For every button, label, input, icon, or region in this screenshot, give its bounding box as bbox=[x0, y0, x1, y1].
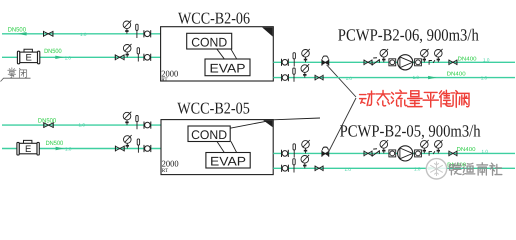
valve V6 on pipe-5 bbox=[44, 122, 53, 128]
svg-text:1.0: 1.0 bbox=[80, 32, 87, 37]
thermowell T3 on pipe-3 bbox=[293, 53, 295, 67]
svg-text:DN500: DN500 bbox=[38, 118, 57, 125]
watermark logo circle bbox=[426, 159, 446, 179]
flow arrow pipe-1 (left) bbox=[17, 32, 26, 35]
union J10 on pipe-7 bbox=[389, 150, 396, 157]
watermark text nuan-tong-nan-she bbox=[450, 163, 462, 175]
svg-text:1.0: 1.0 bbox=[482, 149, 489, 154]
leader underline for chang-bi bbox=[1, 78, 31, 81]
svg-text:DN500: DN500 bbox=[46, 140, 64, 147]
check valve CK2 on pipe-7 bbox=[372, 149, 379, 157]
dynamic balancing valve BV2 on pipe-7 bbox=[322, 147, 329, 157]
label box EVAP unit-2 bbox=[206, 153, 250, 169]
wire pipe-6 condenser supply (bottom left) bbox=[2, 148, 161, 150]
svg-text:WCC-B2-06: WCC-B2-06 bbox=[178, 9, 250, 28]
svg-text:DN400: DN400 bbox=[457, 147, 476, 153]
gauge PG1 on pipe-1 bbox=[123, 20, 131, 33]
svg-text:COND: COND bbox=[191, 128, 227, 142]
svg-text:1.0: 1.0 bbox=[346, 76, 353, 81]
svg-text:DN400: DN400 bbox=[458, 56, 477, 62]
leader corner flag outward box-2 bbox=[273, 118, 320, 120]
flow arrow pipe-6 (right) bbox=[56, 147, 64, 150]
valve V5 on pipe-4 bbox=[315, 75, 323, 81]
svg-text:1.0: 1.0 bbox=[483, 58, 490, 63]
svg-text:1.0: 1.0 bbox=[413, 75, 420, 80]
svg-text:DN400: DN400 bbox=[447, 72, 466, 78]
svg-text:E: E bbox=[26, 53, 32, 64]
wire pipe-8 chilled water (bottom right) bbox=[273, 167, 515, 169]
union J7 on pipe-5 bbox=[144, 122, 151, 129]
union J5 on pipe-3 bbox=[415, 59, 422, 66]
valve V2 on pipe-2 bbox=[115, 54, 124, 60]
chiller unit box WCC-B2-05 bbox=[161, 120, 273, 175]
wire pipe-3 pump suction (top right) bbox=[273, 61, 515, 63]
drain cock D1 on pipe-3 bbox=[429, 60, 435, 65]
leader corner flag to COND box-2 bbox=[230, 121, 265, 128]
flow arrow pipe-4 (right) bbox=[428, 76, 436, 79]
gauge PG7 on pipe-4 bbox=[301, 64, 309, 77]
corner flag triangle box-1 bbox=[262, 27, 273, 36]
wire pipe-1 condenser return (top left) bbox=[2, 33, 161, 35]
valve V3 on pipe-3 bbox=[364, 60, 372, 66]
svg-text:WCC-B2-05: WCC-B2-05 bbox=[177, 98, 250, 117]
label chang-bi (normally closed) bbox=[8, 68, 16, 78]
flow meter E1 on pipe-2 bbox=[17, 49, 39, 64]
thermowell T7 on pipe-7 bbox=[293, 144, 295, 158]
gauge PG6 on pipe-3 bbox=[435, 49, 443, 62]
leader COND to EVAP box-1 bbox=[217, 49, 224, 59]
svg-text:1.0: 1.0 bbox=[65, 55, 72, 60]
svg-text:1.0: 1.0 bbox=[345, 167, 352, 172]
wire pipe-4 chilled water (right) bbox=[273, 77, 515, 79]
wire pipe-7 pump suction (bottom right) bbox=[273, 152, 515, 154]
valve V4 on pipe-3 bbox=[449, 60, 457, 66]
gauge PG4 on pipe-3 bbox=[380, 49, 388, 62]
union J4 on pipe-3 bbox=[389, 59, 396, 66]
leader from BV1 to red label bbox=[327, 65, 356, 97]
chiller unit box WCC-B2-06 bbox=[161, 27, 274, 81]
gauge PG9 on pipe-6 bbox=[124, 135, 132, 148]
label box COND unit-1 bbox=[187, 33, 232, 49]
gauge PG5 on pipe-3 bbox=[421, 49, 429, 62]
label box COND unit-2 bbox=[188, 126, 230, 142]
thermowell T5 on pipe-5 bbox=[136, 116, 138, 130]
valve V10 on pipe-8 bbox=[315, 166, 323, 172]
gauge PG3 on pipe-3 bbox=[302, 49, 310, 62]
gauge PG14 on pipe-8 bbox=[301, 155, 309, 168]
flow meter E2 on pipe-6 bbox=[17, 140, 39, 155]
drain cock D2 on pipe-7 bbox=[429, 151, 435, 156]
union J2 on pipe-2 bbox=[144, 54, 151, 61]
svg-text:COND: COND bbox=[191, 35, 227, 49]
svg-text:DN500: DN500 bbox=[8, 26, 27, 33]
valve V1 on pipe-1 bbox=[44, 31, 53, 37]
svg-text:1.0: 1.0 bbox=[414, 166, 421, 171]
wire pipe-5 condenser return (bottom left) bbox=[2, 124, 161, 126]
svg-text:EVAP: EVAP bbox=[210, 62, 246, 76]
svg-text:DN500: DN500 bbox=[44, 48, 62, 55]
valve V7 on pipe-6 bbox=[115, 146, 124, 152]
union J3 on pipe-3 bbox=[282, 59, 289, 66]
svg-text:1.0: 1.0 bbox=[79, 123, 86, 128]
svg-text:RT: RT bbox=[161, 77, 168, 83]
red annotation dong-tai-liu-liang-ping-heng-fa (dynamic flow balancing valve) bbox=[360, 91, 375, 105]
union J1 on pipe-1 bbox=[144, 30, 151, 37]
svg-text:1.0: 1.0 bbox=[65, 147, 72, 152]
check valve CK1 on pipe-3 bbox=[372, 58, 379, 66]
union J11 on pipe-7 bbox=[415, 150, 422, 157]
leader from red label to BV2 bbox=[328, 98, 356, 153]
wire pipe-2 condenser supply (left) bbox=[2, 56, 161, 58]
dynamic balancing valve BV1 on pipe-3 bbox=[322, 56, 329, 66]
gauge PG8 on pipe-5 bbox=[123, 112, 131, 125]
gauge PG11 on pipe-7 bbox=[380, 140, 388, 153]
union J8 on pipe-6 bbox=[144, 145, 151, 152]
pump PCWP-B2-05 bbox=[398, 146, 413, 161]
corner flag triangle box-2 bbox=[263, 120, 273, 127]
thermowell T6 on pipe-6 bbox=[137, 139, 139, 153]
svg-text:E: E bbox=[25, 144, 31, 155]
union J9 on pipe-7 bbox=[282, 150, 289, 157]
svg-text:PCWP-B2-05, 900m3/h: PCWP-B2-05, 900m3/h bbox=[340, 122, 481, 141]
thermowell T2 on pipe-2 bbox=[137, 48, 139, 62]
svg-text:EVAP: EVAP bbox=[210, 154, 246, 168]
thermowell T1 on pipe-1 bbox=[136, 24, 138, 38]
flow arrow pipe-2 (right) bbox=[55, 56, 63, 59]
label box EVAP unit-1 bbox=[205, 59, 250, 76]
valve V9 on pipe-7 bbox=[449, 151, 457, 157]
gauge PG12 on pipe-7 bbox=[421, 140, 429, 153]
thermowell T4 on pipe-4 bbox=[293, 68, 295, 82]
flow arrow pipe-8 (right) bbox=[428, 167, 436, 170]
gauge PG13 on pipe-7 bbox=[435, 140, 443, 153]
svg-text:1.0: 1.0 bbox=[481, 76, 488, 81]
gauge PG10 on pipe-7 bbox=[302, 140, 310, 153]
svg-text:PCWP-B2-06, 900m3/h: PCWP-B2-06, 900m3/h bbox=[338, 26, 479, 45]
union J6 on pipe-4 bbox=[282, 74, 289, 81]
thermowell T8 on pipe-8 bbox=[293, 159, 295, 173]
pump PCWP-B2-06 bbox=[398, 55, 413, 70]
leader COND to EVAP box-2 bbox=[217, 142, 224, 153]
gauge PG2 on pipe-2 bbox=[123, 44, 131, 57]
union J12 on pipe-8 bbox=[282, 165, 289, 172]
valve V8 on pipe-7 bbox=[364, 151, 372, 157]
svg-text:RT: RT bbox=[162, 168, 169, 174]
